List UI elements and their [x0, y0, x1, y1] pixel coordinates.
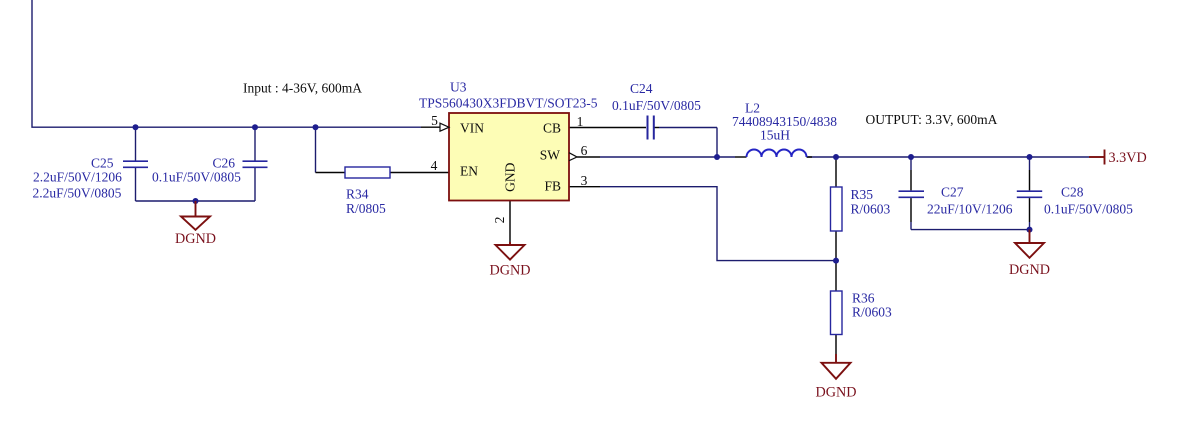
svg-text:R36: R36 — [852, 291, 875, 306]
svg-text:Input : 4-36V, 600mA: Input : 4-36V, 600mA — [243, 81, 362, 96]
svg-text:6: 6 — [581, 143, 588, 158]
svg-text:GND: GND — [503, 162, 518, 191]
svg-text:2.2uF/50V/0805: 2.2uF/50V/0805 — [33, 186, 122, 201]
svg-text:15uH: 15uH — [760, 128, 790, 143]
svg-text:DGND: DGND — [816, 385, 857, 401]
svg-text:R34: R34 — [346, 187, 369, 202]
svg-text:2.2uF/50V/1206: 2.2uF/50V/1206 — [33, 170, 122, 185]
svg-text:C24: C24 — [630, 81, 653, 96]
svg-text:R/0603: R/0603 — [852, 305, 892, 320]
svg-text:R35: R35 — [851, 187, 874, 202]
svg-text:0.1uF/50V/0805: 0.1uF/50V/0805 — [1044, 202, 1133, 217]
svg-text:U3: U3 — [450, 80, 467, 95]
svg-text:0.1uF/50V/0805: 0.1uF/50V/0805 — [152, 170, 241, 185]
svg-text:TPS560430X3FDBVT/SOT23-5: TPS560430X3FDBVT/SOT23-5 — [419, 96, 598, 111]
svg-text:C28: C28 — [1061, 185, 1084, 200]
svg-text:0.1uF/50V/0805: 0.1uF/50V/0805 — [612, 98, 701, 113]
svg-text:3.3VD: 3.3VD — [1109, 150, 1147, 166]
svg-text:VIN: VIN — [460, 121, 484, 136]
svg-text:R/0603: R/0603 — [851, 202, 891, 217]
svg-text:DGND: DGND — [490, 263, 531, 279]
svg-text:DGND: DGND — [1009, 262, 1050, 278]
svg-text:5: 5 — [431, 113, 438, 128]
svg-text:C27: C27 — [941, 185, 964, 200]
svg-text:3: 3 — [581, 173, 588, 188]
svg-text:EN: EN — [460, 164, 478, 179]
svg-text:SW: SW — [540, 148, 561, 163]
svg-text:2: 2 — [492, 217, 507, 224]
svg-text:C26: C26 — [213, 156, 236, 171]
svg-text:CB: CB — [543, 121, 561, 136]
svg-text:4: 4 — [431, 158, 438, 173]
svg-text:1: 1 — [577, 114, 584, 129]
svg-text:DGND: DGND — [175, 231, 216, 247]
svg-text:C25: C25 — [91, 156, 114, 171]
svg-text:R/0805: R/0805 — [346, 201, 386, 216]
svg-text:22uF/10V/1206: 22uF/10V/1206 — [927, 202, 1013, 217]
svg-text:OUTPUT: 3.3V, 600mA: OUTPUT: 3.3V, 600mA — [866, 112, 998, 127]
svg-text:FB: FB — [544, 179, 561, 194]
